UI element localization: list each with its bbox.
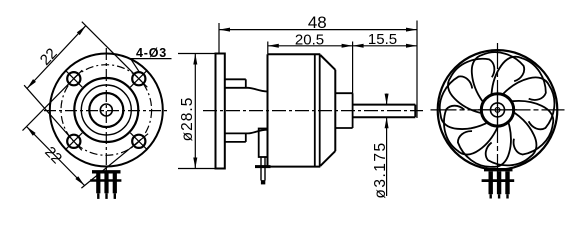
rear view shaft center [495, 108, 500, 113]
side view mount arm bottom profile [225, 130, 268, 142]
rear view hub crosshair [478, 91, 517, 130]
dimension 20.5 / 15.5 extension and dimension lines [268, 42, 417, 94]
front view centerline horizontal [44, 110, 169, 112]
rear view hub ring [481, 94, 513, 126]
connector rear view (3-pin plug) [482, 170, 515, 199]
mounting hole top-left with crosshairs [23, 70, 83, 130]
leader line for 4-Ø3 [131, 59, 172, 73]
side view connector and lead wires [255, 129, 271, 185]
dimension 48 extension and dimension lines [219, 21, 417, 119]
side view shaft [353, 105, 416, 118]
dimension 20.5 / 15.5 arrows [268, 44, 417, 48]
rear view rotor rim circle [438, 50, 558, 170]
svg-text:ø28.5: ø28.5 [179, 97, 196, 142]
dimension line 22 lower diagonal [25, 125, 86, 187]
front view center hole [100, 104, 112, 116]
svg-text:48: 48 [308, 13, 327, 32]
dimension Ø3.175 arrows [385, 94, 389, 129]
dimension Ø28.5 extension and dimension lines [178, 54, 216, 169]
side view bell chamfer bottom [320, 151, 335, 166]
dimension 48 arrows [219, 28, 417, 32]
side view centerline [203, 110, 423, 112]
mounting hole bottom-left with crosshairs and extension line [24, 85, 82, 150]
side view bell face [334, 70, 336, 151]
side view mounting flange plate [216, 54, 225, 169]
mounting hole top-right with crosshairs and extension line [82, 22, 148, 88]
side view bell chamfer top [320, 55, 335, 70]
svg-text:20.5: 20.5 [295, 32, 324, 49]
side view mount arm top profile [225, 79, 268, 91]
svg-text:ø3.175: ø3.175 [372, 141, 389, 198]
front view bolt circle (dash-dot) [61, 65, 152, 156]
dimension Ø3.175 line [386, 94, 388, 197]
rear view centerline vertical [497, 43, 499, 178]
front view circle r25 [81, 85, 131, 135]
rear view hub inner circle [491, 103, 505, 117]
front view centerline vertical [105, 48, 107, 174]
connector front view (3-pin plug) [90, 172, 121, 199]
rear view fan blades (9 curved petals) [415, 26, 580, 191]
svg-text:4-Ø3: 4-Ø3 [136, 46, 167, 60]
side view motor can body [268, 54, 321, 166]
dimension Ø28.5 arrows [193, 54, 197, 169]
side view shaft boss [335, 93, 352, 128]
svg-text:15.5: 15.5 [368, 31, 397, 48]
mounting hole bottom-right with crosshairs and extension line [81, 133, 148, 188]
front view outer circle (motor flange OD) [50, 54, 163, 167]
front view circle r32 (stator seat) [74, 78, 138, 142]
front view circle r17 (bearing boss) [89, 93, 123, 127]
rear view centerline horizontal [431, 109, 565, 111]
dimension line 22 upper diagonal [26, 24, 88, 90]
